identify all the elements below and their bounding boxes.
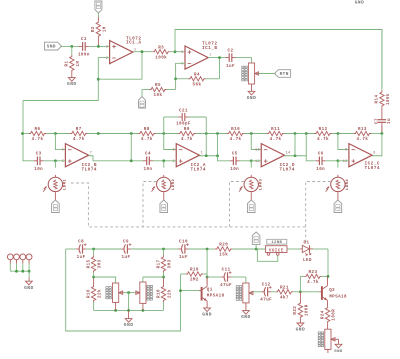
svg-text:TL074: TL074 <box>280 168 295 173</box>
svg-text:C5: C5 <box>232 153 238 157</box>
svg-text:100k: 100k <box>386 93 391 105</box>
svg-text:C7: C7 <box>375 118 379 124</box>
svg-text:R9: R9 <box>184 128 190 132</box>
svg-text:SND: SND <box>47 45 56 50</box>
svg-text:4.7k: 4.7k <box>73 137 85 142</box>
svg-text:GND: GND <box>247 95 257 101</box>
svg-text:C9: C9 <box>123 241 129 245</box>
svg-text:GND: GND <box>202 312 212 318</box>
svg-text:GND: GND <box>124 322 134 328</box>
svg-text:GND: GND <box>241 314 251 320</box>
svg-text:LED: LED <box>303 259 312 263</box>
svg-text:R12: R12 <box>319 128 328 132</box>
svg-text:10k: 10k <box>154 93 163 98</box>
svg-text:15k: 15k <box>219 253 228 258</box>
svg-text:R23: R23 <box>309 271 318 275</box>
svg-text:R22: R22 <box>294 306 298 315</box>
svg-text:R19: R19 <box>190 269 199 273</box>
svg-text:22k: 22k <box>168 289 173 298</box>
svg-text:R3: R3 <box>158 46 164 50</box>
svg-text:R21: R21 <box>280 286 289 290</box>
svg-text:4.7k: 4.7k <box>307 280 319 285</box>
svg-text:LDR1: LDR1 <box>64 179 68 191</box>
svg-text:R20: R20 <box>219 244 228 248</box>
svg-text:TL074: TL074 <box>191 168 206 173</box>
svg-text:10n: 10n <box>230 168 239 172</box>
svg-text:100pF: 100pF <box>176 122 191 126</box>
svg-text:7: 7 <box>90 152 93 156</box>
svg-text:LDR2: LDR2 <box>172 179 176 191</box>
svg-text:10n: 10n <box>34 168 43 172</box>
svg-text:14: 14 <box>286 152 291 156</box>
svg-text:9: 9 <box>345 149 348 153</box>
svg-text:GND: GND <box>296 327 306 333</box>
svg-text:R2: R2 <box>92 26 96 32</box>
svg-text:R15: R15 <box>87 259 91 268</box>
svg-text:IC1_A: IC1_A <box>126 41 141 46</box>
svg-text:R14: R14 <box>376 95 380 104</box>
svg-text:IC1_B: IC1_B <box>202 46 217 51</box>
svg-text:MPSA18: MPSA18 <box>329 295 347 299</box>
svg-text:C8: C8 <box>78 241 84 245</box>
svg-text:R4: R4 <box>194 73 200 77</box>
svg-text:1u: 1u <box>388 118 392 124</box>
svg-text:1M: 1M <box>103 26 107 32</box>
svg-text:R6: R6 <box>35 128 41 132</box>
svg-text:10n: 10n <box>144 168 153 172</box>
svg-text:GND: GND <box>334 350 343 354</box>
svg-text:C10: C10 <box>179 241 188 245</box>
svg-text:6: 6 <box>62 149 65 153</box>
svg-text:56k: 56k <box>193 82 202 87</box>
svg-text:C21: C21 <box>179 109 188 113</box>
svg-text:100n: 100n <box>78 54 90 58</box>
svg-text:12NB: 12NB <box>271 241 282 245</box>
svg-text:R11: R11 <box>271 128 280 132</box>
svg-text:TL074: TL074 <box>82 168 97 173</box>
svg-text:100R: 100R <box>333 309 337 321</box>
svg-text:13: 13 <box>255 149 260 153</box>
svg-text:GND: GND <box>355 0 364 5</box>
svg-text:1: 1 <box>201 152 204 156</box>
svg-text:C1: C1 <box>81 38 87 42</box>
svg-text:8: 8 <box>373 152 376 156</box>
svg-text:R17: R17 <box>157 259 161 268</box>
svg-text:R5: R5 <box>155 84 161 88</box>
svg-text:GND: GND <box>67 81 77 87</box>
svg-text:R24: R24 <box>321 310 325 319</box>
svg-text:C2: C2 <box>228 49 234 53</box>
svg-text:22k: 22k <box>98 289 103 298</box>
svg-text:Q2: Q2 <box>329 289 335 293</box>
svg-text:47uF: 47uF <box>220 284 232 288</box>
svg-text:1uF: 1uF <box>122 256 131 260</box>
svg-text:4.7k: 4.7k <box>181 137 193 142</box>
svg-text:1M: 1M <box>77 61 81 67</box>
svg-text:4.7k: 4.7k <box>32 137 44 142</box>
svg-text:1uF: 1uF <box>77 256 86 260</box>
svg-text:MPSA18: MPSA18 <box>207 295 225 299</box>
svg-text:4k7: 4k7 <box>280 295 289 300</box>
svg-text:C4: C4 <box>145 153 151 157</box>
svg-text:100R: 100R <box>305 304 309 316</box>
svg-text:3M3: 3M3 <box>99 259 103 268</box>
svg-text:R16: R16 <box>87 289 91 298</box>
svg-text:RTN: RTN <box>280 72 289 77</box>
svg-text:LDR3: LDR3 <box>260 179 264 191</box>
svg-text:1uF: 1uF <box>179 256 188 260</box>
svg-text:4.7k: 4.7k <box>356 137 368 142</box>
svg-text:100k: 100k <box>155 55 167 60</box>
svg-text:R18: R18 <box>157 289 161 298</box>
svg-text:4.7k: 4.7k <box>141 137 153 142</box>
svg-text:TL074: TL074 <box>365 166 380 171</box>
svg-text:R8: R8 <box>144 128 150 132</box>
svg-text:47uF: 47uF <box>260 299 272 303</box>
svg-text:10n: 10n <box>316 168 325 172</box>
svg-text:4.7k: 4.7k <box>270 137 282 142</box>
svg-text:GND: GND <box>24 285 34 291</box>
svg-text:R10: R10 <box>231 128 240 132</box>
svg-text:2M2: 2M2 <box>190 279 199 283</box>
svg-text:C3: C3 <box>36 153 42 157</box>
svg-text:VOICE: VOICE <box>269 249 284 253</box>
svg-text:R13: R13 <box>358 128 367 132</box>
svg-text:C11: C11 <box>222 269 231 273</box>
svg-text:C6: C6 <box>318 153 324 157</box>
svg-text:R1: R1 <box>66 61 70 67</box>
svg-text:3M3: 3M3 <box>169 259 173 268</box>
svg-text:LDR4: LDR4 <box>346 179 350 191</box>
svg-text:D1: D1 <box>304 242 310 246</box>
svg-text:4.7k: 4.7k <box>230 137 242 142</box>
svg-text:4.7k: 4.7k <box>317 137 329 142</box>
svg-text:R7: R7 <box>76 128 82 132</box>
svg-text:2: 2 <box>173 149 176 153</box>
svg-text:3: 3 <box>106 46 109 50</box>
svg-text:1uF: 1uF <box>226 65 235 69</box>
svg-text:C12: C12 <box>262 283 271 287</box>
svg-text:5: 5 <box>181 51 184 55</box>
svg-text:Q1: Q1 <box>207 288 213 292</box>
